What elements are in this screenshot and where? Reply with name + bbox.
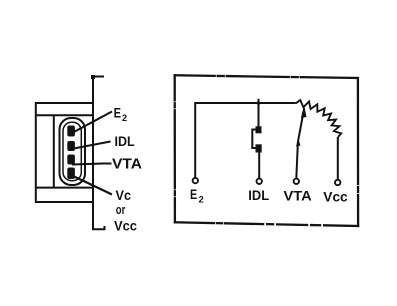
IDL contact pad top: [256, 126, 262, 133]
connector outer outline: [60, 118, 86, 185]
leader line VTA: [72, 164, 112, 165]
IDL terminal: [257, 179, 262, 184]
sensor inset vertical: [53, 115, 55, 187]
wire IDL upper: [258, 103, 260, 129]
svg-text:IDL: IDL: [248, 187, 269, 203]
svg-text:or: or: [116, 203, 126, 217]
leader line IDL: [71, 142, 111, 150]
VTA terminal: [294, 179, 299, 184]
svg-text:E: E: [114, 106, 121, 121]
resistor (zigzag): [296, 100, 341, 137]
sensor body outline: [36, 103, 93, 202]
node junction IDL on bus: [257, 99, 261, 105]
svg-text:IDL: IDL: [115, 133, 136, 149]
IDL contact pad bottom: [256, 144, 262, 152]
sensor flange line bottom: [36, 187, 93, 189]
svg-text:VTA: VTA: [284, 188, 312, 204]
pin 1 (E2): [67, 126, 75, 137]
throttle body edge: [91, 75, 105, 229]
svg-text:Vcc: Vcc: [114, 218, 137, 234]
svg-text:Vcc: Vcc: [323, 188, 348, 204]
svg-text:VTA: VTA: [112, 156, 143, 172]
svg-text:2: 2: [199, 195, 204, 205]
sensor flange line top: [36, 114, 93, 116]
leader line E2: [72, 112, 112, 134]
pin 4 (Vc): [67, 168, 75, 180]
pin 2 (IDL): [67, 141, 75, 151]
wire Vcc: [337, 137, 339, 180]
VTA wiper mid arrowhead: [296, 139, 301, 147]
Vcc terminal: [335, 180, 340, 185]
ECU box (dash-dot border): [175, 75, 358, 226]
VTA wiper line lower: [296, 142, 298, 179]
pin 3 (VTA): [67, 155, 75, 165]
connector inner outline: [63, 122, 81, 180]
wire E2 vertical + top bus: [195, 103, 296, 178]
svg-text:2: 2: [122, 113, 127, 123]
svg-text:Vc: Vc: [116, 187, 132, 203]
IDL contact bracket: [252, 130, 258, 149]
wire IDL lower: [258, 153, 260, 179]
leader line Vc: [72, 176, 112, 195]
E2 terminal: [193, 178, 198, 183]
VTA arrowhead: [301, 105, 307, 118]
VTA wiper line upper: [298, 113, 303, 142]
svg-text:E: E: [190, 187, 197, 202]
